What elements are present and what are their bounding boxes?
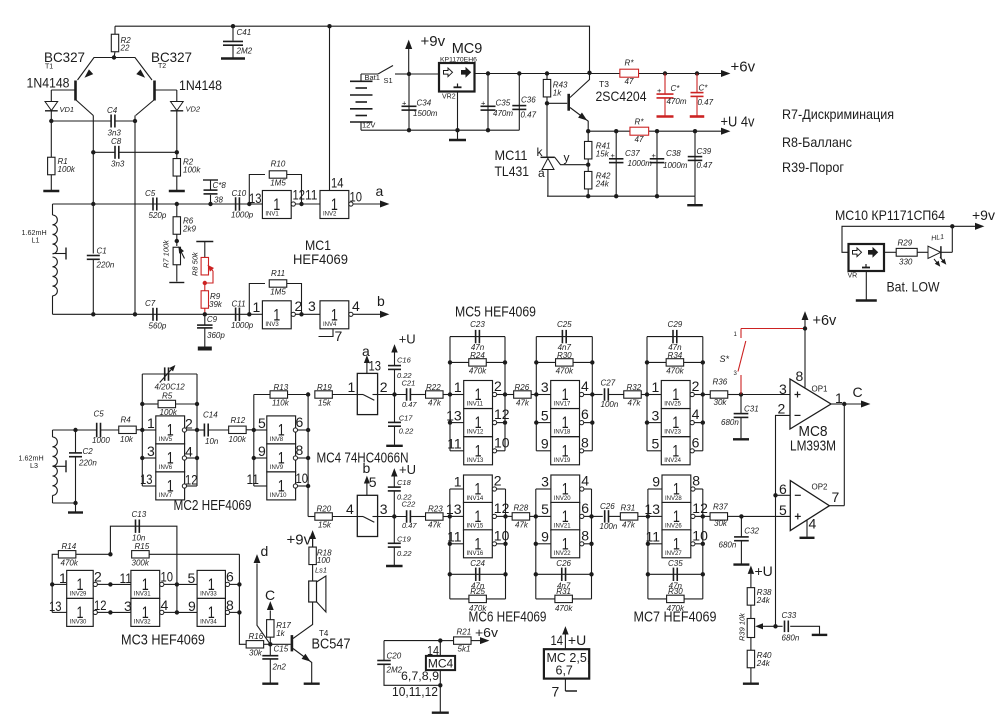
capacitor C38 1000m bbox=[656, 131, 658, 196]
capacitor C25 4n7 feedback bbox=[536, 336, 592, 338]
transistor T2 body bar bbox=[153, 81, 156, 101]
svg-text:1: 1 bbox=[835, 390, 843, 406]
node rail T3 collector bbox=[587, 71, 591, 75]
svg-text:47k: 47k bbox=[428, 521, 442, 530]
svg-text:6: 6 bbox=[692, 434, 700, 450]
svg-text:+: + bbox=[652, 151, 657, 160]
wire OP1 plus input bbox=[741, 394, 790, 396]
svg-text:MC5 HEF4069: MC5 HEF4069 bbox=[455, 305, 536, 321]
svg-text:S*: S* bbox=[720, 354, 730, 364]
svg-text:6,7,8,9: 6,7,8,9 bbox=[401, 669, 439, 683]
svg-text:7: 7 bbox=[552, 684, 560, 700]
svg-text:MC9: MC9 bbox=[452, 41, 483, 57]
svg-text:47: 47 bbox=[635, 135, 644, 144]
svg-text:C10: C10 bbox=[232, 189, 247, 198]
svg-text:C: C bbox=[265, 587, 275, 603]
svg-text:680n: 680n bbox=[782, 634, 800, 643]
svg-text:1k: 1k bbox=[553, 89, 562, 98]
ground below C2 bbox=[75, 503, 77, 512]
inverter INV6 (MC2) bbox=[142, 457, 156, 459]
svg-text:470k: 470k bbox=[61, 559, 79, 568]
LED HL1 bbox=[928, 246, 941, 258]
variable capacitor C12 4/20 bbox=[142, 373, 197, 375]
inverter INV22 (MC6b) bbox=[536, 543, 551, 545]
svg-text:0.47: 0.47 bbox=[521, 111, 537, 120]
svg-text:12: 12 bbox=[293, 187, 306, 203]
inverter INV14 (MC6a) bbox=[450, 488, 464, 490]
svg-text:100n: 100n bbox=[600, 522, 618, 531]
inverter INV24 (MC7a) bbox=[647, 450, 661, 452]
capacitor C37 1000m bbox=[615, 131, 617, 196]
svg-text:680n: 680n bbox=[719, 541, 737, 550]
svg-text:0.22: 0.22 bbox=[399, 427, 414, 436]
svg-text:VR2: VR2 bbox=[442, 94, 456, 101]
inverter INV34 (MC3) bbox=[177, 611, 197, 613]
svg-text:1000p: 1000p bbox=[231, 211, 254, 220]
arrow +U 4v bbox=[722, 128, 730, 134]
svg-text:R14: R14 bbox=[62, 542, 77, 551]
capacitor C36 0.47 bbox=[518, 74, 520, 131]
detector MC10 box bbox=[849, 244, 885, 271]
svg-text:y: y bbox=[564, 151, 570, 165]
svg-text:4: 4 bbox=[692, 406, 700, 422]
svg-text:b: b bbox=[377, 293, 385, 309]
capacitor C14 10n bbox=[197, 429, 204, 431]
svg-text:C11: C11 bbox=[232, 300, 246, 309]
svg-text:HEF4069: HEF4069 bbox=[293, 251, 348, 267]
ground below C41 bbox=[221, 57, 245, 59]
svg-text:6: 6 bbox=[226, 569, 234, 585]
inverter INV29 (MC3) bbox=[52, 583, 66, 585]
T4 base wire bbox=[270, 643, 290, 645]
ground below T4 bbox=[304, 683, 320, 685]
svg-text:2: 2 bbox=[185, 416, 193, 432]
MC9 ground stub bbox=[457, 92, 459, 131]
svg-text:1: 1 bbox=[59, 570, 67, 586]
capacitor C41 bbox=[231, 24, 235, 28]
svg-text:C21: C21 bbox=[402, 379, 416, 388]
svg-text:C27: C27 bbox=[601, 379, 616, 388]
MC5a feedback left rail bbox=[449, 337, 451, 451]
svg-text:C35: C35 bbox=[668, 559, 683, 568]
resistor R37 30k bbox=[703, 515, 711, 517]
svg-text:R29: R29 bbox=[898, 239, 913, 248]
node C4 right / T2 collector bbox=[133, 119, 137, 123]
MC10 ground bbox=[865, 271, 867, 300]
svg-text:C15: C15 bbox=[274, 645, 289, 654]
svg-text:10,11,12: 10,11,12 bbox=[392, 685, 438, 699]
svg-text:2: 2 bbox=[380, 379, 388, 395]
svg-text:4: 4 bbox=[581, 473, 589, 489]
svg-text:R10: R10 bbox=[271, 160, 286, 169]
svg-text:R30: R30 bbox=[557, 351, 572, 360]
svg-text:R15: R15 bbox=[135, 542, 150, 551]
switch a control arrow and labels bbox=[366, 360, 368, 373]
node C8 right / VD2 bottom bbox=[175, 150, 179, 154]
svg-text:1M5: 1M5 bbox=[270, 179, 286, 188]
analog switch a box bbox=[357, 373, 377, 414]
ground symbol power bbox=[457, 130, 459, 139]
ground below R2 100k bbox=[169, 190, 185, 192]
inverter INV30 (MC3) bbox=[52, 611, 66, 613]
svg-text:470m: 470m bbox=[667, 97, 687, 106]
svg-text:47k: 47k bbox=[515, 521, 529, 530]
svg-text:VD2: VD2 bbox=[186, 105, 201, 114]
node R39 wiper bbox=[773, 624, 777, 628]
voltage regulator MC9 KP1170EH6 box bbox=[439, 63, 475, 92]
resistor R38 24k bbox=[747, 588, 754, 606]
arrow +U divider bbox=[748, 567, 753, 574]
inverter INV10 (MC4col) bbox=[254, 485, 267, 487]
resistor R28 47k bbox=[506, 515, 513, 517]
ground below R40 bbox=[743, 683, 759, 685]
svg-text:R13: R13 bbox=[274, 383, 289, 392]
resistor R9 39k (red) bbox=[204, 283, 206, 291]
node MC3 input bbox=[50, 582, 54, 586]
wire switch b out bbox=[378, 516, 407, 518]
svg-text:R7-Дискриминация: R7-Дискриминация bbox=[782, 106, 894, 122]
transistor T3 collector bbox=[570, 73, 590, 98]
svg-text:R11: R11 bbox=[271, 269, 285, 278]
svg-text:INV34: INV34 bbox=[200, 619, 217, 625]
svg-text:1: 1 bbox=[147, 415, 155, 431]
svg-text:INV20: INV20 bbox=[554, 496, 571, 502]
node rail C35 bbox=[486, 71, 490, 75]
svg-text:C14: C14 bbox=[203, 411, 218, 420]
svg-text:1000: 1000 bbox=[92, 436, 110, 445]
svg-text:13: 13 bbox=[369, 358, 382, 374]
capacitor C16 0.22 and +U arrow bbox=[394, 369, 396, 394]
MC5a feedback right rail bbox=[504, 337, 506, 451]
svg-text:KP1170EH6: KP1170EH6 bbox=[440, 57, 477, 64]
MC4col feedback right rail bbox=[307, 395, 309, 517]
diode VD1 1N4148 bbox=[50, 90, 52, 101]
svg-text:11: 11 bbox=[305, 187, 318, 203]
arrow +6v MC4 bbox=[481, 638, 489, 644]
MC6b feedback left rail bbox=[535, 489, 537, 599]
svg-text:100k: 100k bbox=[183, 166, 201, 175]
potentiometer R8 50k (red) bbox=[204, 242, 206, 258]
svg-text:9: 9 bbox=[652, 474, 660, 490]
wire OP2 plus input bbox=[741, 515, 790, 517]
svg-text:INV2: INV2 bbox=[323, 212, 337, 218]
svg-text:INV26: INV26 bbox=[665, 523, 682, 529]
wire outputs common bbox=[843, 404, 845, 506]
resistor R10 1M5 feedback bbox=[249, 175, 265, 205]
svg-text:1N4148: 1N4148 bbox=[179, 77, 222, 93]
resistor R23 47k bbox=[426, 513, 444, 520]
inverter INV9 (MC4col) bbox=[254, 457, 267, 459]
svg-text:30k: 30k bbox=[714, 519, 728, 528]
inverter INV18 (MC5b) bbox=[536, 422, 550, 424]
potentiometer R7 100k bbox=[173, 247, 180, 265]
inverter INV28 (MC7b) bbox=[648, 488, 662, 490]
resistor R43 1k bbox=[546, 74, 548, 81]
inverter INV8 (MC4col) bbox=[254, 429, 267, 431]
inverter INV4 (MC1) bbox=[320, 301, 349, 329]
svg-text:13: 13 bbox=[249, 190, 262, 206]
svg-text:12V: 12V bbox=[362, 121, 375, 130]
analog switch b box bbox=[357, 495, 377, 536]
svg-text:4: 4 bbox=[809, 516, 817, 532]
node T4 base bbox=[268, 642, 272, 646]
svg-text:+: + bbox=[611, 151, 616, 160]
nodes INV33/34 out bbox=[237, 582, 241, 586]
capacitor C33 680n bbox=[776, 625, 783, 627]
arrow +6v comparator bbox=[804, 320, 806, 329]
svg-text:470m: 470m bbox=[493, 109, 513, 118]
capacitor C26 4n7 feedback bbox=[536, 573, 592, 575]
svg-text:8: 8 bbox=[581, 527, 589, 543]
svg-text:INV23: INV23 bbox=[664, 430, 681, 436]
svg-text:13: 13 bbox=[446, 407, 462, 423]
svg-text:OP1: OP1 bbox=[812, 385, 829, 394]
svg-text:39k: 39k bbox=[209, 300, 223, 309]
MC6a feedback left rail bbox=[449, 489, 451, 599]
svg-text:5: 5 bbox=[652, 436, 660, 452]
svg-text:R26: R26 bbox=[515, 383, 530, 392]
svg-text:INV17: INV17 bbox=[554, 402, 571, 408]
resistor R1 100k bbox=[50, 121, 52, 157]
node C11 right bbox=[247, 312, 251, 316]
resistor R34 470k feedback bbox=[647, 361, 703, 363]
capacitor C* 470m (red) bbox=[664, 74, 666, 95]
shunt regulator MC11 TL431 bbox=[546, 103, 548, 157]
svg-text:38: 38 bbox=[214, 196, 223, 205]
svg-text:1500m: 1500m bbox=[413, 109, 438, 118]
svg-text:+U: +U bbox=[399, 462, 416, 477]
svg-text:MC10 КР1171СП64: MC10 КР1171СП64 bbox=[835, 207, 945, 223]
arrow output C bbox=[862, 401, 870, 407]
svg-text:5: 5 bbox=[779, 502, 787, 518]
resistor R6 2k9 bbox=[176, 204, 178, 217]
arrow +6v bbox=[722, 71, 730, 77]
svg-text:3: 3 bbox=[541, 379, 549, 395]
wire MC10 top bbox=[842, 226, 977, 252]
resistor R17 1k bbox=[269, 637, 271, 644]
node C10 right bbox=[247, 202, 251, 206]
MC4 box bbox=[439, 641, 441, 656]
svg-text:30k: 30k bbox=[249, 649, 263, 658]
svg-text:6: 6 bbox=[779, 481, 787, 497]
svg-text:12: 12 bbox=[185, 472, 198, 488]
svg-text:INV32: INV32 bbox=[134, 619, 151, 625]
svg-text:INV28: INV28 bbox=[665, 496, 682, 502]
svg-text:5k1: 5k1 bbox=[458, 645, 471, 654]
svg-text:100k: 100k bbox=[229, 435, 247, 444]
svg-text:INV25: INV25 bbox=[664, 402, 681, 408]
capacitor C23 47n feedback bbox=[450, 336, 505, 338]
svg-text:C26: C26 bbox=[600, 502, 615, 511]
svg-text:C5: C5 bbox=[145, 189, 156, 198]
potentiometer R39 10k bbox=[747, 619, 754, 638]
svg-text:INV1: INV1 bbox=[265, 212, 279, 218]
node rail red C*1 bbox=[663, 71, 667, 75]
node +6v op-amp supply bbox=[803, 326, 807, 330]
svg-text:R8 50k: R8 50k bbox=[191, 251, 200, 276]
svg-text:0.47: 0.47 bbox=[402, 400, 417, 409]
svg-text:Ls1: Ls1 bbox=[315, 566, 327, 575]
svg-text:C26: C26 bbox=[556, 559, 571, 568]
node rail C36 bbox=[517, 71, 521, 75]
transistor T2 BC327 emitter wire bbox=[114, 58, 152, 81]
svg-text:C38: C38 bbox=[666, 149, 681, 158]
svg-text:+6v: +6v bbox=[813, 313, 838, 329]
node VD1 bottom bbox=[49, 119, 53, 123]
svg-text:R25: R25 bbox=[470, 587, 485, 596]
svg-text:R30: R30 bbox=[668, 587, 683, 596]
svg-text:INV10: INV10 bbox=[270, 493, 287, 499]
svg-text:5: 5 bbox=[369, 474, 377, 490]
svg-text:24k: 24k bbox=[595, 180, 610, 189]
svg-text:0.47: 0.47 bbox=[402, 521, 417, 530]
resistor R20 15k bbox=[308, 516, 315, 518]
svg-text:520p: 520p bbox=[149, 211, 167, 220]
svg-text:C19: C19 bbox=[397, 535, 412, 544]
svg-text:47k: 47k bbox=[516, 399, 530, 408]
node rail R43 bbox=[545, 71, 549, 75]
svg-text:3: 3 bbox=[147, 443, 155, 459]
svg-text:MC11: MC11 bbox=[495, 147, 528, 163]
resistor R18 100 bbox=[312, 539, 314, 548]
pin 14 label and VDD wire from +6v rail bbox=[327, 24, 331, 28]
svg-text:C22: C22 bbox=[402, 500, 417, 509]
svg-text:INV11: INV11 bbox=[467, 402, 484, 408]
svg-text:2k9: 2k9 bbox=[182, 225, 196, 234]
resistor R* 47 (red) bbox=[620, 69, 639, 77]
svg-text:2: 2 bbox=[295, 298, 303, 314]
wire MC4 supply loop top bbox=[384, 640, 440, 642]
wire battery to MC9 bbox=[409, 73, 439, 75]
capacitor C39 0.47 bbox=[694, 131, 696, 196]
svg-text:110k: 110k bbox=[272, 399, 290, 408]
svg-text:8: 8 bbox=[692, 473, 700, 489]
capacitor C1 220n bbox=[87, 255, 100, 257]
svg-text:10: 10 bbox=[494, 527, 510, 543]
inverter INV31 (MC3) bbox=[110, 583, 130, 585]
capacitor C10 1000p bbox=[235, 197, 237, 211]
svg-text:INV13: INV13 bbox=[467, 458, 484, 464]
MC7b feedback right rail bbox=[702, 489, 704, 599]
svg-text:2: 2 bbox=[692, 378, 700, 394]
svg-text:12: 12 bbox=[494, 500, 510, 516]
inverter INV32 (MC3) bbox=[110, 611, 130, 613]
inductor L1 1.62mH bbox=[52, 204, 54, 215]
MC2 feedback left rail bbox=[141, 374, 143, 486]
node +U C39 bbox=[693, 129, 697, 133]
svg-text:Bat. LOW: Bat. LOW bbox=[887, 279, 941, 295]
wire threshold rail bbox=[775, 495, 777, 626]
node rail red C*2 bbox=[695, 71, 699, 75]
svg-text:R39 10k: R39 10k bbox=[738, 612, 747, 641]
capacitor C13 10n bbox=[110, 526, 176, 612]
svg-text:C4: C4 bbox=[107, 106, 118, 115]
svg-text:T1: T1 bbox=[45, 64, 53, 71]
svg-text:1: 1 bbox=[348, 379, 356, 395]
svg-text:R24: R24 bbox=[470, 351, 485, 360]
node +U C38 bbox=[655, 129, 659, 133]
node +U C37 bbox=[614, 129, 618, 133]
svg-text:8: 8 bbox=[581, 434, 589, 450]
resistor R4 10k bbox=[119, 426, 137, 433]
svg-text:6: 6 bbox=[296, 414, 304, 430]
resistor R32 47k bbox=[624, 391, 642, 398]
arrow output a bbox=[381, 201, 389, 207]
resistor R29 330 bbox=[884, 251, 896, 253]
svg-text:R34: R34 bbox=[668, 351, 683, 360]
resistor R31 47k coupling bbox=[620, 513, 638, 520]
wire OP1 output bbox=[831, 403, 844, 405]
svg-text:+: + bbox=[481, 99, 486, 108]
resistor R30 470k feedback bbox=[536, 361, 592, 363]
svg-text:8: 8 bbox=[796, 368, 804, 384]
svg-text:4: 4 bbox=[346, 501, 354, 517]
svg-text:C41: C41 bbox=[237, 28, 252, 37]
transistor T3 2SC4204 base wire bbox=[547, 102, 567, 104]
node R43 bottom bbox=[545, 101, 549, 105]
svg-text:1: 1 bbox=[454, 474, 462, 490]
inverter INV21 (MC6b) bbox=[536, 515, 551, 517]
svg-text:INV7: INV7 bbox=[159, 493, 173, 499]
node S1 right bbox=[407, 72, 411, 76]
op-amp OP2 (MC8) bbox=[790, 481, 829, 531]
resistor R40 24k bbox=[747, 650, 754, 668]
svg-text:INV6: INV6 bbox=[159, 465, 173, 471]
nodes INV31/32 out bbox=[175, 582, 179, 586]
svg-text:4/20C12: 4/20C12 bbox=[155, 383, 186, 392]
svg-text:C7: C7 bbox=[145, 299, 156, 308]
svg-text:INV3: INV3 bbox=[265, 322, 279, 328]
wire +6v top supply rail bbox=[115, 26, 590, 72]
node INV1 out bbox=[299, 202, 303, 206]
svg-text:C2: C2 bbox=[83, 447, 94, 456]
svg-text:2: 2 bbox=[494, 378, 502, 394]
svg-text:C20: C20 bbox=[387, 652, 402, 661]
resistor R15 300k bbox=[132, 551, 150, 558]
inductor L3 shield tap bbox=[53, 465, 67, 467]
svg-text:3: 3 bbox=[652, 407, 660, 423]
inverter INV7 (MC2) bbox=[142, 485, 156, 487]
node R9 bottom bbox=[203, 312, 207, 316]
svg-text:INV19: INV19 bbox=[554, 458, 571, 464]
svg-text:9: 9 bbox=[188, 598, 196, 614]
svg-text:BC547: BC547 bbox=[312, 637, 351, 653]
svg-text:2: 2 bbox=[94, 569, 102, 585]
svg-text:3: 3 bbox=[779, 381, 787, 397]
svg-text:a: a bbox=[376, 183, 384, 199]
svg-text:C37: C37 bbox=[625, 149, 640, 158]
svg-text:11: 11 bbox=[120, 570, 133, 586]
svg-text:+U: +U bbox=[568, 632, 586, 648]
resistor R2 100k bbox=[176, 152, 178, 159]
svg-text:MC6 HEF4069: MC6 HEF4069 bbox=[469, 610, 547, 626]
resistor R21 5k1 bbox=[440, 640, 454, 642]
svg-text:INV4: INV4 bbox=[323, 322, 337, 328]
svg-text:2: 2 bbox=[494, 473, 502, 489]
svg-text:15k: 15k bbox=[318, 521, 332, 530]
arrow d connector bbox=[257, 564, 270, 645]
svg-text:11: 11 bbox=[447, 529, 462, 545]
svg-text:INV29: INV29 bbox=[70, 591, 87, 597]
svg-text:C18: C18 bbox=[397, 478, 412, 487]
svg-text:13: 13 bbox=[446, 501, 462, 517]
svg-text:R8-Балланс: R8-Балланс bbox=[782, 134, 852, 150]
svg-text:30k: 30k bbox=[714, 398, 728, 407]
MC5b feedback left rail bbox=[535, 337, 537, 451]
svg-text:C13: C13 bbox=[132, 510, 147, 519]
svg-text:R39-Порог: R39-Порог bbox=[782, 159, 844, 175]
svg-text:1: 1 bbox=[253, 299, 261, 315]
